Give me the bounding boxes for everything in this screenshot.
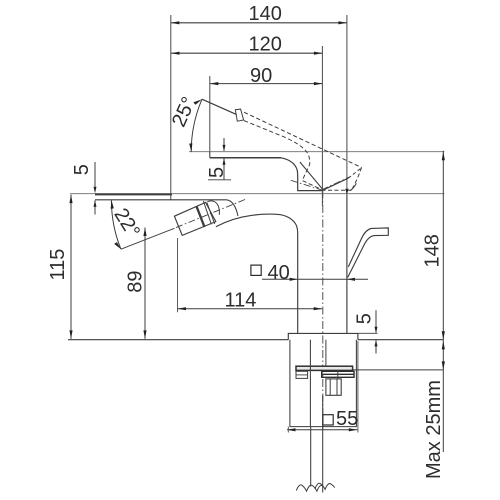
5 dim upper [223, 138, 225, 151]
nut [326, 379, 341, 395]
dashed lever top [244, 112, 362, 167]
dimension 120 [171, 52, 322, 54]
svg-text:140: 140 [249, 3, 282, 25]
right bar [322, 371, 354, 377]
extension line x322.4 [321, 46, 323, 206]
dim 115 [70, 195, 72, 339]
pipes inside box [309, 340, 311, 427]
under-counter box [290, 340, 357, 427]
svg-text:114: 114 [225, 289, 257, 311]
solid base diagonal right [323, 178, 348, 190]
lever hook side handle [348, 228, 389, 278]
svg-text:5: 5 [206, 167, 228, 178]
lower spout underside Q [95, 200, 238, 216]
svg-text:89: 89 [125, 271, 147, 293]
plate top short line to leader [358, 332, 378, 334]
bump on lever [235, 109, 243, 121]
extension line x209.8 [209, 76, 211, 152]
dimension 140 [171, 22, 347, 24]
dashed right edge of lever [352, 168, 362, 190]
countertop line [68, 339, 288, 341]
svg-text:40: 40 [268, 262, 290, 284]
cap lines [203, 201, 211, 224]
dimension 90 [210, 83, 323, 85]
thick aerator band [197, 207, 205, 228]
extension line left x170.8 [170, 15, 172, 200]
corner curve and vertical to base, bottom line [281, 158, 323, 191]
svg-text:55: 55 [336, 408, 358, 430]
tip step vertical [209, 152, 211, 158]
spout head rectangle (22deg) [174, 202, 215, 235]
washer bar [296, 366, 353, 370]
svg-text:5: 5 [71, 164, 93, 175]
spout axis extension thin [121, 228, 174, 249]
left block [296, 371, 308, 378]
small arrow at x346.9 y194.5 [345, 189, 348, 195]
svg-text:148: 148 [422, 234, 444, 267]
ext line 114 [177, 238, 179, 312]
lever solid line 25deg [202, 99, 237, 114]
column right edge [346, 195, 348, 334]
5 dim left [94, 162, 96, 187]
25 degree arc [191, 99, 202, 152]
svg-text:Max 25mm: Max 25mm [423, 380, 445, 479]
22 degree arc [111, 200, 121, 249]
centerline vertical dash-dot [322, 191, 324, 430]
dim 5 right [375, 310, 377, 332]
elbow at cap top [207, 201, 219, 215]
dim 89 [144, 228, 146, 339]
svg-text:90: 90 [250, 65, 272, 87]
svg-text:5: 5 [354, 313, 376, 324]
spout underside upper view [210, 157, 281, 159]
svg-text:120: 120 [249, 34, 282, 56]
extension line right x346.9 (also column right edge above) [346, 15, 348, 195]
dashed lever bottom, curving [244, 121, 321, 190]
base plate [288, 333, 358, 339]
svg-text:115: 115 [47, 249, 69, 281]
reference line lower (y193.7) [70, 193, 444, 195]
spout axis dash-dot through head [176, 199, 247, 228]
dim 114 [178, 308, 323, 310]
pipes below box [310, 427, 312, 487]
dim square40 [262, 278, 368, 280]
hook curve near 351,190 [350, 183, 356, 190]
dim 148 + max25 vertical [442, 151, 444, 452]
internal solid diagonal [300, 162, 323, 190]
thick segment on reference [95, 193, 172, 195]
reference line upper (y151.7) [189, 151, 444, 153]
counter bottom line right [353, 369, 443, 371]
V dash-dot legs at pivot [291, 180, 322, 190]
crest curve from head to column [216, 214, 298, 333]
zigzag break lines [296, 485, 322, 491]
dim square55 [323, 415, 333, 425]
